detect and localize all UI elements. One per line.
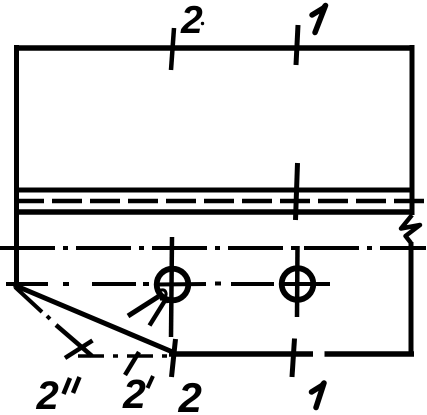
svg-text:2: 2 bbox=[36, 374, 59, 415]
svg-text:2: 2 bbox=[180, 0, 203, 42]
svg-text:2: 2 bbox=[178, 374, 202, 415]
svg-text:2: 2 bbox=[122, 371, 146, 415]
